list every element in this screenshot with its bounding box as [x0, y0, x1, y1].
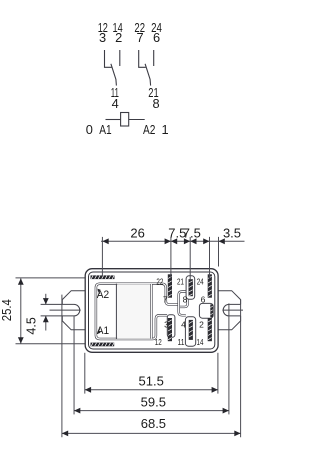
arrow 25.4 bottom	[18, 337, 24, 343]
bottom dimensions	[62, 295, 241, 438]
arrow 4.5 upper	[43, 298, 49, 304]
extension 51.5 right	[217, 353, 219, 394]
wire NO contact 24/6 vertical	[153, 50, 155, 66]
slot centre line left	[50, 309, 81, 311]
mounting flange left ear	[62, 291, 85, 330]
extension line pin col 1	[170, 237, 172, 279]
pin blade 12	[168, 318, 172, 341]
relay body inner case line	[89, 272, 215, 349]
dimension line top	[101, 240, 245, 242]
pin blade 11	[189, 320, 193, 340]
svg-text:59.5: 59.5	[141, 394, 166, 409]
extension line 26 left	[101, 237, 103, 276]
arrows 68.5	[62, 431, 68, 437]
svg-text:A1: A1	[97, 325, 109, 337]
extension line pin col 2	[189, 237, 191, 279]
right ear lower edge	[218, 316, 241, 330]
coil terminal arrow A1	[97, 329, 100, 334]
svg-text:0: 0	[86, 122, 93, 137]
wire NC contact 12/3 vertical with bend	[105, 50, 112, 67]
svg-text:6: 6	[153, 30, 160, 45]
wire common 21/8 movable arm	[145, 64, 151, 86]
svg-text:2: 2	[199, 319, 204, 329]
svg-text:68.5: 68.5	[141, 416, 166, 431]
dim line 68.5	[62, 432, 241, 434]
pin blade 14	[208, 318, 212, 341]
svg-text:4: 4	[112, 96, 119, 111]
svg-text:7: 7	[163, 295, 168, 305]
svg-text:6: 6	[201, 295, 206, 305]
svg-text:3.5: 3.5	[223, 225, 241, 240]
moulding wall stub to channel 21	[180, 299, 188, 307]
svg-text:51.5: 51.5	[139, 373, 164, 388]
vertical dimension 25.4	[20, 278, 22, 343]
hatched rivet strip top	[91, 275, 115, 279]
hatched rivet strip bottom	[91, 343, 115, 347]
arrows 59.5	[74, 408, 80, 414]
left ear upper edge	[62, 291, 85, 305]
svg-text:14: 14	[197, 337, 204, 347]
pin channel 12 outline (bottom left)	[167, 315, 175, 338]
svg-text:11: 11	[178, 337, 185, 347]
mounting flange right ear	[218, 291, 243, 330]
extension 51.5 left	[84, 353, 86, 394]
svg-text:24: 24	[197, 277, 204, 287]
pin blade 6	[210, 304, 213, 317]
coil area shaded block	[117, 285, 150, 339]
extension line pin col 3	[209, 237, 211, 279]
mounting slot right	[223, 304, 240, 316]
flange plate top edge / 25.4 extension top	[16, 277, 86, 279]
extension 59.5 left	[73, 316, 75, 414]
pin blade 24	[208, 274, 212, 297]
pin blade 22	[168, 274, 172, 297]
vertical dimension 4.5	[45, 294, 47, 331]
wire common 11/4 movable arm	[111, 64, 117, 86]
slot outline left	[41, 304, 80, 316]
extension line body right edge	[218, 237, 220, 267]
dim line 51.5	[85, 389, 218, 391]
arrow 26 left	[102, 238, 108, 244]
svg-text:8: 8	[152, 96, 159, 111]
wire NC contact 22/7 vertical with bend	[139, 50, 146, 67]
left ear lower edge	[62, 316, 85, 330]
dim line 59.5	[74, 410, 229, 412]
svg-text:A2: A2	[143, 122, 155, 137]
svg-text:4.5: 4.5	[24, 317, 38, 334]
moulding divider line	[115, 284, 117, 339]
wire coil lead A1	[106, 119, 121, 121]
svg-text:12: 12	[155, 337, 162, 347]
arrow 25.4 top	[18, 278, 24, 284]
svg-text:8: 8	[183, 295, 188, 305]
flange plate bottom edge / 25.4 extension bottom	[16, 343, 86, 345]
pin blade 21	[189, 279, 193, 296]
pin channel 11 outline (bottom centre)	[185, 317, 195, 346]
moulding wall between pin channels	[179, 292, 186, 316]
inner moulding outline (double line)	[96, 284, 188, 339]
svg-text:4: 4	[181, 319, 186, 329]
svg-text:3: 3	[99, 30, 106, 45]
extension 68.5 left	[61, 295, 63, 438]
svg-text:1: 1	[161, 122, 168, 137]
svg-text:7: 7	[136, 30, 143, 45]
svg-text:A2: A2	[97, 289, 109, 301]
svg-text:7.5: 7.5	[183, 225, 201, 240]
pin pocket 6 outline (middle right)	[199, 303, 213, 318]
arrows at pin col 2 tick	[184, 238, 190, 244]
svg-text:21: 21	[177, 277, 184, 287]
svg-text:A1: A1	[99, 122, 111, 137]
relay body outer case	[85, 269, 218, 353]
mounting slot left	[41, 304, 81, 316]
right ear upper edge	[218, 291, 241, 305]
pin channel 21 outline (top centre)	[186, 276, 195, 300]
arrows at pin col 1 tick	[165, 238, 171, 244]
svg-text:2: 2	[115, 30, 122, 45]
arrow at pin col 3 tick	[203, 238, 209, 244]
svg-text:25.4: 25.4	[0, 299, 14, 321]
wire coil lead A2	[129, 119, 145, 121]
coil terminal arrow A2	[97, 289, 100, 294]
extension 59.5 right	[228, 303, 230, 414]
moulding divider double line right of coil block	[150, 284, 152, 339]
extension 68.5 right	[240, 300, 242, 438]
arrows 51.5	[85, 387, 91, 393]
svg-text:3: 3	[164, 319, 169, 329]
svg-text:22: 22	[156, 277, 163, 287]
arrow at body edge tick pointing left	[219, 238, 225, 244]
coil element rectangle	[121, 113, 129, 127]
svg-text:26: 26	[130, 225, 144, 240]
arrow 4.5 lower	[43, 316, 49, 322]
wire NO contact 14/2 vertical	[119, 50, 121, 66]
slot centre line right horizontal	[222, 309, 243, 311]
